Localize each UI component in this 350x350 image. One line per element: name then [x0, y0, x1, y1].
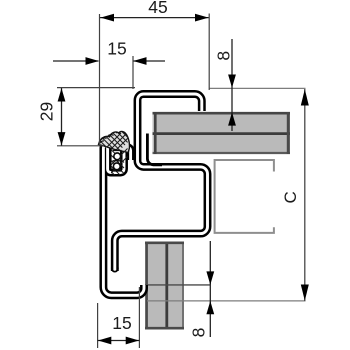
frame sheet P2 (face, bottom wrap, seal channel, hook) outer stroke — [103, 146, 144, 295]
dimension D8b (bottom 8) — [189, 241, 215, 337]
arrowhead D8b down — [206, 271, 214, 284]
arrowhead D45 right — [195, 14, 209, 22]
dimension line D8a lower tail — [231, 88, 233, 131]
svg-text:8: 8 — [214, 51, 234, 61]
reference line near wall face (y=88) — [209, 87, 306, 89]
arrowhead D15a left — [86, 57, 99, 65]
wall board W2 (lower vertical gypsum panel, double layer) — [145, 242, 184, 330]
svg-text:45: 45 — [148, 0, 167, 17]
extension line bottom of D29 — [57, 145, 104, 147]
arrowhead DC top — [301, 89, 309, 105]
arrowhead D29 bottom — [58, 132, 66, 145]
dimension line D8b — [209, 241, 211, 337]
reference line far wall face (y=301) — [147, 300, 306, 302]
frame inner fold edge under slab — [147, 134, 162, 165]
arrowhead D8b up — [206, 301, 214, 314]
arrowhead D15a right — [133, 57, 146, 65]
arrow tail right of D15a — [134, 60, 166, 62]
dimension D15a (top 15) — [53, 39, 165, 90]
arrowhead D15b left — [98, 337, 111, 345]
extension line left of D15b — [97, 303, 99, 348]
frame sheet P2 inner white core — [103, 146, 144, 295]
extension line top of D29 — [57, 87, 135, 89]
svg-text:C: C — [281, 191, 300, 203]
svg-text:29: 29 — [36, 102, 56, 121]
extension line right of D45 — [208, 14, 210, 91]
dimension line D8a upper tail — [231, 39, 233, 88]
dimension line D29 — [61, 88, 63, 146]
extension line right of D15b — [138, 287, 140, 348]
arrowhead D8a down — [228, 75, 236, 88]
dimension D8a (top right 8) — [214, 39, 236, 131]
extension line left of D45 — [99, 14, 101, 145]
arrowhead D45 left — [101, 14, 115, 22]
frame down-leg open end cap — [112, 268, 118, 272]
dimension D15b (bottom 15) — [98, 287, 140, 348]
extension line right of D15a — [132, 56, 134, 89]
svg-text:15: 15 — [107, 39, 126, 59]
arrowhead DC bottom — [301, 285, 309, 301]
svg-text:8: 8 — [189, 328, 209, 338]
arrowhead D15b right — [126, 337, 139, 345]
seal S1 (hatched rubber gasket) — [94, 119, 133, 184]
frame sheet P1 inner white core — [115, 94, 208, 271]
dimension D29 (left height 29) — [36, 88, 135, 146]
dimension line D15b — [98, 340, 140, 342]
wall board W1 (upper horizontal gypsum slab, double layer) — [153, 112, 291, 154]
dimension line D45 — [100, 17, 209, 19]
arrowhead D8a up — [228, 112, 236, 125]
dimension DC (wall thickness C, right) — [281, 89, 309, 301]
reference line board overlap (y=285) — [145, 284, 211, 286]
arrow tail left of D15a — [53, 60, 99, 62]
svg-text:15: 15 — [112, 313, 131, 333]
dimension D45 (overall width 45) — [100, 0, 210, 145]
arrowhead D29 top — [58, 88, 66, 101]
frame sheet P1 (head, lip, under-slab web, descender, throat, down-leg) outer stroke — [115, 94, 208, 271]
dimension line DC — [304, 89, 306, 301]
metal C-stud ST1 (gray wall stud profile) — [215, 160, 274, 233]
